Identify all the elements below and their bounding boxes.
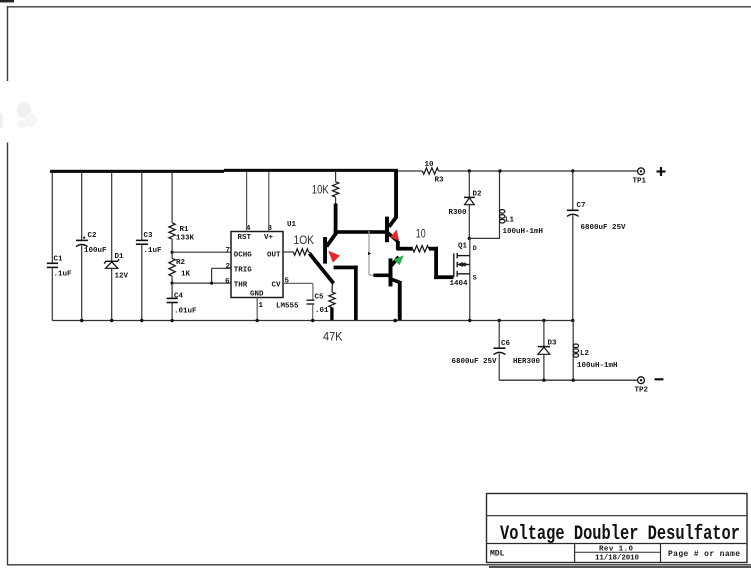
svg-text:Voltage Doubler Desulfator: Voltage Doubler Desulfator — [500, 523, 740, 546]
green arrow (low-side) — [394, 255, 404, 265]
wire to pin 6 THR — [172, 282, 231, 284]
svg-text:.01uF: .01uF — [174, 308, 197, 316]
ground rail (mid) — [52, 320, 573, 322]
svg-text:U1: U1 — [287, 221, 297, 229]
svg-text:6800uF 25V: 6800uF 25V — [581, 224, 627, 232]
svg-text:10K: 10K — [312, 182, 329, 196]
thick wire base rail (horizontal y232) — [334, 230, 389, 234]
capacitor C2 (electrolytic) — [76, 172, 88, 321]
inductor L2 — [573, 321, 578, 381]
svg-text:DCHG: DCHG — [234, 251, 253, 259]
node R3/D2 — [468, 169, 471, 172]
resistor 10 (gate) — [397, 247, 413, 251]
capacitor C6 — [494, 321, 506, 381]
svg-text:D1: D1 — [115, 253, 125, 261]
svg-text:2: 2 — [226, 263, 231, 271]
capacitor C1 — [47, 172, 58, 321]
wire drain to L1 — [469, 237, 500, 239]
svg-text:C4: C4 — [174, 293, 184, 301]
svg-text:.01: .01 — [315, 307, 329, 315]
wire to pin 7 — [172, 251, 231, 253]
wire R3 to TP1 — [469, 170, 637, 172]
svg-text:10: 10 — [416, 227, 426, 241]
wire low-side base (thin gray) — [369, 231, 375, 275]
svg-text:RST: RST — [238, 234, 252, 242]
title block — [487, 494, 748, 563]
V+ bus — [50, 169, 398, 173]
svg-text:THR: THR — [234, 282, 248, 290]
svg-text:47K: 47K — [323, 329, 343, 343]
svg-text:R300: R300 — [449, 209, 468, 217]
svg-text:133K: 133K — [176, 235, 195, 243]
thick stub low-side base — [373, 274, 390, 278]
red arrow (high-side emitter) — [390, 230, 399, 241]
capacitor C7 — [567, 169, 579, 320]
zener diode D1 — [104, 172, 119, 321]
svg-text:V+: V+ — [264, 234, 274, 242]
svg-text:C1: C1 — [54, 256, 64, 264]
negative rail — [499, 379, 637, 381]
wire pin4 to bus — [246, 172, 248, 232]
capacitor C5 — [307, 300, 315, 320]
wire pin 2 TRIG jog — [212, 268, 231, 283]
resistor R1 133K — [169, 172, 175, 252]
node drain junction — [468, 237, 471, 240]
svg-text:L2: L2 — [580, 350, 590, 358]
svg-text:R3: R3 — [435, 177, 445, 185]
svg-text:OUT: OUT — [267, 251, 281, 259]
svg-text:6: 6 — [225, 278, 230, 286]
svg-text:12V: 12V — [115, 273, 129, 281]
thick wire gate L — [429, 247, 454, 279]
node R1/R2/pin7 — [171, 251, 174, 254]
test point TP2 — [635, 377, 664, 395]
svg-text:1K: 1K — [181, 271, 191, 279]
svg-text:1404: 1404 — [450, 280, 469, 288]
IC U1 LM555 — [225, 221, 299, 311]
resistor 47K — [329, 283, 335, 307]
svg-text:5: 5 — [285, 278, 290, 286]
svg-text:100uH-1mH: 100uH-1mH — [577, 362, 618, 370]
svg-text:C2: C2 — [88, 232, 98, 240]
transistor NPN high-side (red arrow) — [385, 217, 400, 250]
resistor R2 1K — [169, 252, 175, 283]
wire OUT pin — [283, 251, 293, 253]
svg-text:L1: L1 — [505, 217, 515, 225]
svg-text:R1: R1 — [180, 226, 190, 234]
transistor low-side (green arrow) — [389, 257, 402, 321]
node R2/C4/pin6 — [171, 282, 174, 285]
svg-text:C3: C3 — [144, 232, 154, 240]
resistor 10K pull-up (vertical) — [332, 172, 338, 205]
wire drain down — [469, 238, 471, 255]
resistor 10K base (horizontal) — [293, 249, 308, 255]
svg-text:D: D — [473, 245, 477, 252]
capacitor C3 — [136, 172, 148, 321]
svg-text:S: S — [473, 275, 477, 282]
svg-text:D2: D2 — [473, 190, 483, 198]
svg-text:.1uF: .1uF — [144, 247, 163, 255]
svg-text:Rev 1.0: Rev 1.0 — [599, 546, 633, 554]
svg-text:1OK: 1OK — [294, 235, 315, 247]
svg-text:1: 1 — [259, 302, 264, 310]
svg-text:TRIG: TRIG — [234, 267, 253, 275]
mosfet Q1 1404 — [454, 253, 470, 321]
svg-text:LM555: LM555 — [276, 303, 299, 311]
thick wire bus to NPN collector — [394, 169, 398, 219]
svg-text:CV: CV — [272, 282, 282, 290]
svg-text:MDL: MDL — [490, 550, 505, 559]
capacitor C4 — [167, 283, 178, 320]
svg-text:.1uF: .1uF — [54, 271, 73, 279]
svg-text:HER300: HER300 — [513, 358, 541, 366]
diode D3 HER300 — [538, 321, 550, 381]
svg-text:100uH-1mH: 100uH-1mH — [503, 228, 544, 236]
wire pin1 GND to bottom rail — [256, 298, 258, 321]
inductor L1 — [500, 171, 505, 238]
wire CV pin5 — [283, 283, 313, 299]
svg-text:R2: R2 — [176, 259, 186, 267]
svg-text:7: 7 — [226, 247, 231, 255]
svg-text:Page # or name: Page # or name — [668, 550, 740, 559]
svg-text:Q1: Q1 — [458, 242, 468, 250]
zener diode D2 R300 — [464, 171, 475, 238]
thick wire PNP collector to bottom rail — [334, 266, 358, 321]
svg-text:D3: D3 — [548, 339, 558, 347]
svg-text:C7: C7 — [577, 202, 586, 210]
svg-text:C5: C5 — [315, 293, 325, 301]
svg-text:10: 10 — [425, 161, 435, 169]
thick wire 10K bottom — [334, 204, 338, 234]
svg-text:C6: C6 — [501, 340, 511, 348]
test point TP1 — [633, 167, 666, 186]
wire pin8 to bus — [268, 172, 270, 232]
svg-text:11/18/2010: 11/18/2010 — [595, 555, 639, 563]
red arrow (PNP driver emitter) — [328, 251, 340, 263]
resistor R3 10 — [398, 168, 469, 174]
svg-text:100uF: 100uF — [84, 247, 107, 255]
svg-text:TP2: TP2 — [635, 387, 649, 395]
svg-text:TP1: TP1 — [633, 178, 647, 186]
svg-text:6800uF 25V: 6800uF 25V — [452, 358, 498, 366]
transistor PNP driver (left) — [310, 232, 337, 283]
